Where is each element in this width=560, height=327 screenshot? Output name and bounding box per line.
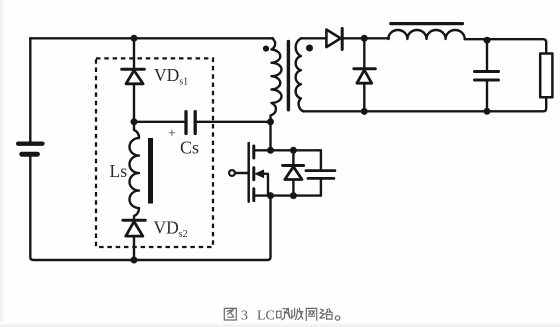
MOSFET Q1 channel segment bottom bbox=[252, 189, 255, 201]
node junction dot D4 bottom rail bbox=[361, 108, 368, 115]
capacitor Cs left plate bbox=[184, 112, 187, 134]
diode VD_s2 cathode bar bbox=[123, 219, 145, 222]
caption full stop circle bbox=[335, 316, 339, 320]
wire D3 cathode to output inductor bbox=[342, 37, 389, 39]
caption hanzi 图 bbox=[224, 308, 236, 320]
capacitor C2 bottom plate bbox=[308, 177, 334, 180]
diode D4 freewheel cathode bar bbox=[354, 67, 375, 70]
node B junction dot (Cs / primary bottom / drain) bbox=[267, 118, 274, 125]
MOSFET Q1 body arrowhead bbox=[255, 170, 263, 177]
svg-text:Ls: Ls bbox=[110, 161, 128, 181]
diode D2 cathode bar bbox=[283, 164, 304, 167]
node junction dot bottom rail / VD_s2 bbox=[131, 257, 138, 264]
diode D4 freewheel triangle bbox=[357, 70, 372, 83]
battery B1 long plate bbox=[18, 141, 42, 145]
caption hanzi 络 bbox=[320, 309, 332, 319]
node junction dot top rail / VD_s1 bbox=[131, 35, 138, 42]
node A junction dot (VD_s1 / Ls / Cs) bbox=[131, 118, 138, 125]
MOSFET Q1 gate wire bbox=[235, 172, 247, 174]
diode D3 cathode bar bbox=[341, 28, 344, 49]
diode VD_s2 triangle bbox=[126, 222, 143, 237]
inductor Ls coil bbox=[130, 122, 140, 220]
node junction dot drain rail bbox=[267, 147, 274, 154]
diode D2 body diode wire top bbox=[292, 150, 294, 165]
wire R1 bottom to bottom rail corner bbox=[304, 97, 547, 111]
svg-text:Cs: Cs bbox=[180, 138, 199, 158]
svg-text:LC: LC bbox=[257, 309, 275, 324]
inductor L1 core bar bbox=[391, 22, 463, 25]
inductor L1 winding bbox=[388, 30, 464, 39]
node junction dot D2 bottom bbox=[290, 192, 297, 199]
caption hanzi 收 bbox=[291, 308, 302, 319]
wire D2 anode to source rail bbox=[292, 180, 294, 196]
capacitor C2 top plate bbox=[306, 169, 335, 172]
caption: 图 3 LC 吸收网络。 bbox=[224, 308, 339, 320]
wire top rail left (battery plus to transformer primary) bbox=[30, 38, 273, 41]
wire VD_s2 anode to bottom rail bbox=[133, 236, 135, 260]
transformer primary polarity dot bbox=[263, 46, 269, 52]
battery B1 short plate bbox=[22, 152, 38, 157]
MOSFET Q1 gate bar bbox=[247, 143, 250, 202]
wire output capacitor branch top bbox=[486, 40, 488, 71]
capacitor C3 output bottom plate bbox=[475, 79, 499, 82]
caption hanzi 网 bbox=[306, 308, 316, 320]
wire drain rail to snubber capacitor bbox=[255, 149, 321, 151]
MOSFET Q1 gate terminal circle bbox=[229, 170, 235, 176]
capacitor C2 bottom lead bbox=[320, 178, 322, 195]
diode VD_s1 triangle bbox=[126, 70, 143, 83]
snubber capacitor C2 top lead bbox=[320, 150, 322, 170]
capacitor C3 output top plate bbox=[475, 70, 499, 73]
wire source rail to snubber capacitor bbox=[255, 194, 321, 196]
node junction dot C3 bottom rail bbox=[484, 108, 491, 115]
wire secondary top to rectifier diode bbox=[301, 37, 326, 39]
MOSFET Q1 channel segment top bbox=[252, 146, 255, 158]
node junction dot secondary rectifier output bbox=[361, 35, 368, 42]
diode D2 triangle bbox=[285, 167, 302, 180]
wire C3 bottom to bottom rail bbox=[486, 80, 488, 111]
wire VD_s1 branch from top rail bbox=[133, 38, 135, 70]
wire VD_s1 anode to node A bbox=[133, 84, 135, 122]
wire freewheel diode branch top bbox=[363, 38, 365, 69]
node junction dot output LC bbox=[484, 37, 491, 44]
transformer T1 primary winding bbox=[271, 38, 282, 150]
node junction dot D2 top bbox=[290, 147, 297, 154]
svg-text:+: + bbox=[168, 127, 176, 142]
wire battery minus down, bottom rail, up to MOSFET source bbox=[30, 157, 270, 261]
svg-text:3: 3 bbox=[241, 309, 248, 324]
wire node A to capacitor Cs left plate bbox=[134, 121, 184, 123]
MOSFET Q1 body arrow line bbox=[257, 174, 268, 196]
wire L1 to output node and top right corner bbox=[465, 39, 547, 53]
wire Cs right plate to node B (drain wire) bbox=[197, 121, 271, 123]
diode VD_s1 cathode bar bbox=[122, 68, 145, 71]
capacitor Cs right plate bbox=[194, 112, 197, 134]
inductor Ls core bar bbox=[148, 138, 153, 204]
caption hanzi 吸 bbox=[277, 308, 290, 320]
transformer T1 core bbox=[287, 42, 290, 110]
wire left vertical from top rail down to battery bbox=[29, 38, 31, 141]
resistor R1 load body bbox=[540, 54, 552, 98]
transformer T1 secondary winding bbox=[296, 38, 304, 111]
node junction dot source rail bbox=[267, 192, 274, 199]
MOSFET Q1 channel segment middle bbox=[252, 168, 255, 180]
diode D3 rectifier triangle bbox=[326, 30, 340, 48]
transformer secondary polarity dot bbox=[306, 45, 313, 52]
wire D4 anode to bottom rail bbox=[363, 83, 365, 111]
dashed snubber box bbox=[96, 58, 213, 247]
